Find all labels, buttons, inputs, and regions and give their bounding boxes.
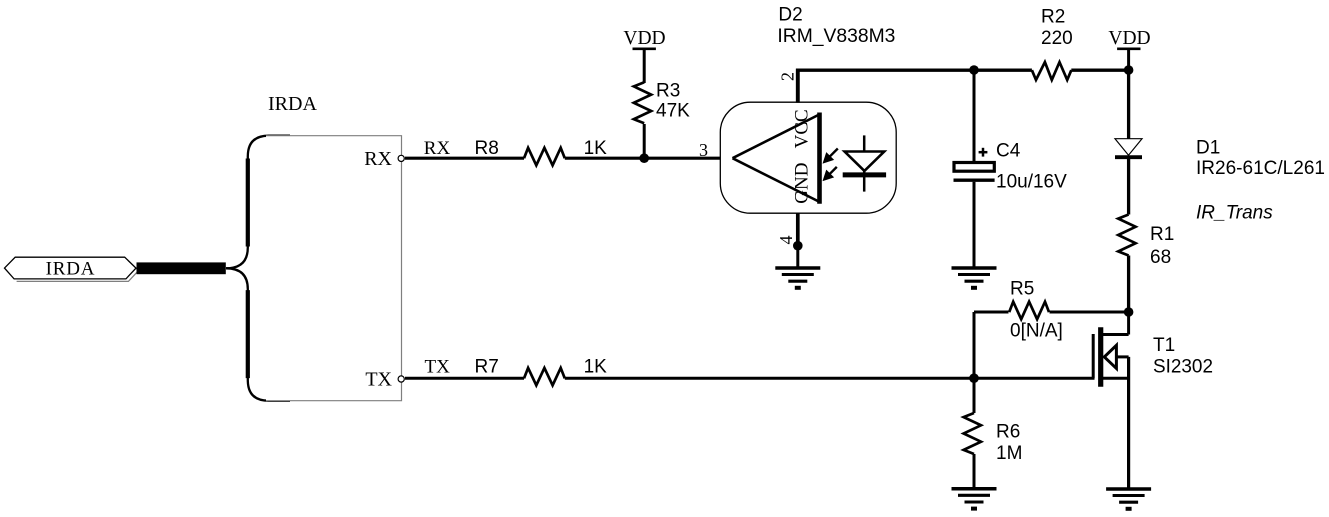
transistor T1 drain vertical	[1127, 312, 1130, 335]
svg-text:C4: C4	[996, 140, 1021, 161]
junction RX node	[639, 153, 649, 163]
IR receiver D2 body	[720, 102, 896, 213]
svg-text:4: 4	[776, 236, 796, 245]
svg-text:3: 3	[699, 140, 708, 160]
pin circle TX	[398, 376, 404, 382]
svg-text:D1: D1	[1196, 138, 1220, 159]
wire pin4 to ground	[796, 246, 799, 268]
junction D2 pin4	[793, 241, 803, 251]
D2 photodiode cathode bar	[843, 172, 886, 177]
D2 light arrow 1	[823, 149, 838, 163]
svg-text:1K: 1K	[584, 357, 608, 378]
svg-text:TX: TX	[425, 357, 451, 378]
pin circle RX	[398, 155, 404, 161]
wire VDD stub	[1127, 48, 1130, 70]
bus fanout upper thick segment	[246, 159, 250, 247]
svg-text:TX: TX	[365, 368, 392, 390]
port IRDA shadow	[17, 260, 139, 282]
junction VDD node	[1124, 65, 1134, 75]
resistor R2	[1032, 62, 1071, 80]
svg-text:RX: RX	[364, 148, 392, 170]
bus fanout lower thick segment	[246, 290, 250, 378]
svg-text:68: 68	[1150, 247, 1171, 268]
svg-text:VDD: VDD	[1108, 28, 1150, 49]
svg-text:RX: RX	[424, 138, 451, 159]
D2 amp triangle side upper	[733, 114, 820, 158]
D2 photodiode triangle	[845, 152, 885, 171]
transistor T1 body arrow	[1104, 345, 1116, 368]
svg-text:GND: GND	[792, 163, 813, 204]
svg-text:0[N/A]: 0[N/A]	[1010, 320, 1063, 341]
svg-text:IR_Trans: IR_Trans	[1196, 203, 1273, 224]
svg-text:VDD: VDD	[623, 28, 665, 49]
wire R1 to drain node	[1127, 256, 1130, 313]
transistor T1 drain stub	[1103, 333, 1129, 336]
capacitor C4 top plate	[954, 163, 994, 172]
svg-text:R3: R3	[656, 81, 680, 102]
bus fanout upper curve	[226, 136, 290, 269]
wire TX net left segment	[405, 377, 524, 380]
D2 amp triangle base	[817, 113, 822, 204]
ground T1	[1106, 489, 1151, 509]
svg-text:2: 2	[778, 72, 798, 81]
D2 pin 4	[796, 213, 800, 246]
ground D2	[775, 268, 820, 288]
svg-text:R6: R6	[996, 422, 1020, 443]
wire R5 right	[1050, 311, 1129, 314]
svg-text:SI2302: SI2302	[1153, 357, 1213, 378]
resistor R7	[524, 368, 565, 385]
wire top net pin2 to R2	[796, 68, 1032, 71]
svg-text:1M: 1M	[996, 443, 1022, 464]
transistor T1 source stub	[1103, 377, 1129, 380]
diode D1 triangle	[1115, 139, 1142, 156]
wire D1 to R1	[1127, 157, 1130, 214]
svg-text:IRDA: IRDA	[268, 93, 317, 115]
resistor R6	[964, 413, 981, 454]
wire RX net	[405, 157, 524, 160]
D2 light arrow 2	[823, 167, 837, 181]
svg-text:IRDA: IRDA	[46, 258, 96, 279]
power VDD (right) bar	[1117, 47, 1140, 50]
svg-text:D2: D2	[778, 4, 802, 25]
wire R5 left vertical	[973, 312, 976, 378]
transistor T1 channel bar	[1098, 327, 1103, 386]
transistor T1 gate bar	[1092, 334, 1095, 378]
bus bar	[137, 262, 226, 274]
wire C4 bottom lead	[973, 182, 976, 268]
svg-text:R8: R8	[475, 138, 499, 159]
wire TX net R7 to T1 gate	[565, 377, 1095, 380]
junction C4 top	[969, 65, 979, 75]
resistor R8	[524, 148, 565, 166]
bus fanout lower curve	[226, 268, 290, 400]
svg-text:220: 220	[1041, 28, 1073, 49]
wire VDD to R3	[643, 49, 646, 83]
transistor T1 source vertical	[1127, 357, 1130, 489]
svg-text:47K: 47K	[656, 100, 690, 121]
junction TX/R6 node	[969, 373, 979, 383]
diode D1 cathode bar	[1115, 155, 1142, 159]
svg-text:R7: R7	[475, 357, 499, 378]
capacitor C4 plus sign	[979, 148, 988, 157]
sheet symbol IRDA box	[266, 136, 402, 401]
junction drain node	[1124, 307, 1134, 317]
ground R6	[952, 489, 997, 509]
ground C4	[952, 268, 997, 288]
resistor R5	[1009, 302, 1049, 320]
resistor R3	[634, 82, 651, 123]
svg-text:T1: T1	[1153, 335, 1175, 356]
wire R2 to VDD node	[1071, 68, 1128, 71]
svg-text:IRM_V838M3: IRM_V838M3	[777, 26, 895, 47]
wire R6 bottom lead	[973, 454, 976, 489]
port IRDA flag	[5, 257, 137, 279]
wire R6 top lead	[973, 378, 976, 413]
transistor T1 body stub	[1116, 355, 1128, 358]
D2 photodiode vertical line	[863, 135, 866, 191]
svg-text:R5: R5	[1010, 279, 1034, 300]
svg-text:10u/16V: 10u/16V	[996, 172, 1067, 193]
svg-text:VCC: VCC	[792, 109, 813, 148]
svg-text:R2: R2	[1041, 6, 1065, 27]
svg-text:1K: 1K	[584, 138, 608, 159]
wire R8 to junction	[565, 157, 733, 160]
capacitor C4 bottom plate	[954, 179, 995, 182]
wire C4 top lead	[973, 70, 976, 162]
wire R3 to junction	[643, 124, 646, 158]
svg-text:IR26-61C/L261: IR26-61C/L261	[1196, 158, 1325, 179]
D2 pin 2	[796, 69, 800, 103]
wire VDD to D1	[1127, 70, 1130, 139]
svg-text:R1: R1	[1150, 224, 1174, 245]
resistor R1	[1118, 215, 1135, 256]
power VDD (R3) bar	[633, 47, 656, 50]
D2 amp triangle side lower	[733, 158, 820, 202]
wire R5 left horizontal	[974, 311, 1009, 314]
